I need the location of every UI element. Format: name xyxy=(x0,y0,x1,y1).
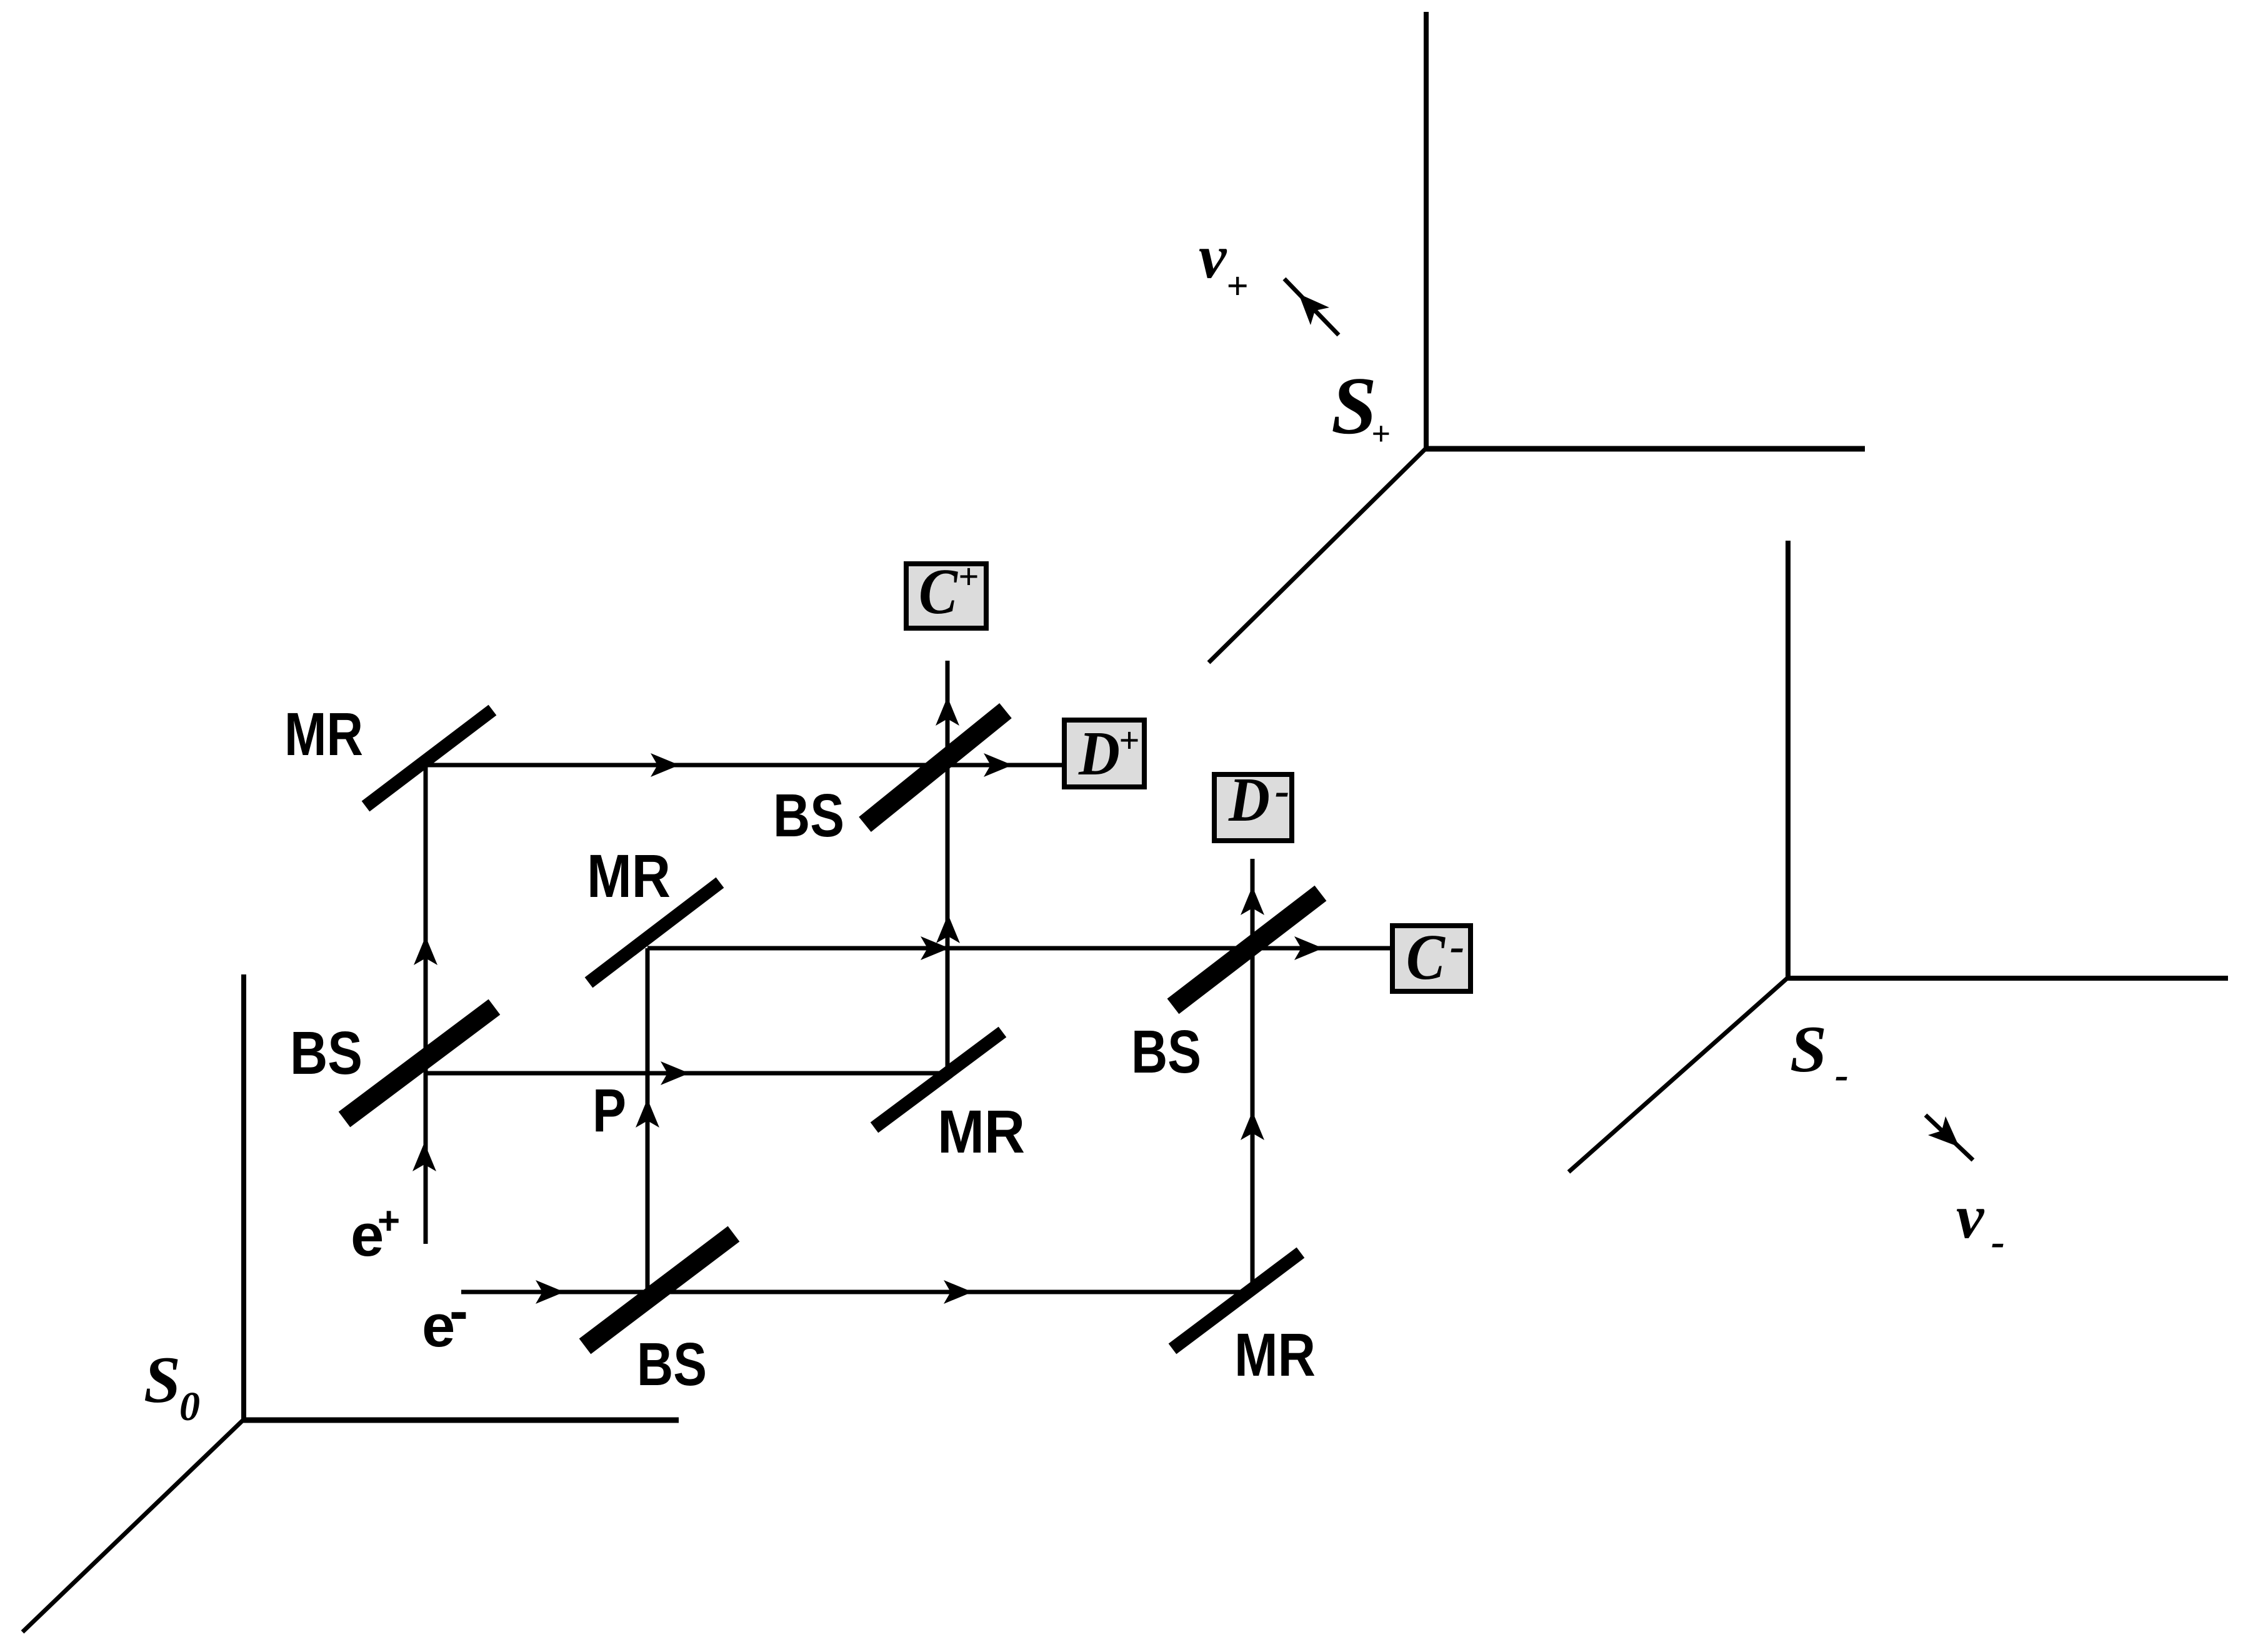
wire top horizontal beam to D+ xyxy=(426,763,1062,768)
svg-text:S: S xyxy=(144,1343,181,1416)
wire middle horizontal beam to C- xyxy=(647,946,1390,951)
frame S+ diagonal axis xyxy=(1209,448,1427,663)
detector box C- xyxy=(1392,926,1471,991)
svg-text:+: + xyxy=(377,1199,400,1243)
frame S0 diagonal axis xyxy=(22,1419,244,1632)
wire D- vertical beam xyxy=(1251,859,1255,1292)
svg-text:+: + xyxy=(1119,720,1139,761)
svg-text:BS: BS xyxy=(773,781,844,849)
svg-text:BS: BS xyxy=(637,1330,707,1398)
arrow v- head xyxy=(1928,1116,1959,1147)
frame S0 vertical axis xyxy=(241,974,246,1420)
svg-text:MR: MR xyxy=(937,1098,1025,1166)
wire e+ input vertical beam xyxy=(424,765,428,1244)
svg-text:+: + xyxy=(1371,415,1391,453)
svg-text:-: - xyxy=(449,1280,468,1343)
svg-text:C: C xyxy=(1406,921,1446,993)
arrow right on top beam xyxy=(651,753,679,777)
beam splitter BS top-middle xyxy=(865,711,1006,824)
detector box C+ xyxy=(906,564,986,628)
arrow right toward C- xyxy=(1294,936,1323,960)
svg-text:BS: BS xyxy=(1131,1018,1201,1086)
svg-text:S: S xyxy=(1331,361,1377,451)
svg-text:v: v xyxy=(1956,1182,1985,1251)
arrow up on e+ beam xyxy=(412,1143,436,1171)
wire C+ vertical beam xyxy=(946,661,950,1073)
svg-text:-: - xyxy=(1275,767,1289,815)
beam splitter BS left xyxy=(344,1007,494,1119)
beam splitter BS right xyxy=(1173,893,1321,1006)
svg-text:BS: BS xyxy=(290,1019,362,1087)
mirror MR middle xyxy=(589,883,720,983)
svg-text:D: D xyxy=(1078,718,1120,788)
frame S+ horizontal axis xyxy=(1424,446,1865,452)
svg-text:MR: MR xyxy=(587,842,671,910)
svg-text:D: D xyxy=(1228,764,1270,834)
arrow right on e- input xyxy=(536,1280,564,1304)
mirror MR top-left xyxy=(366,710,492,806)
svg-text:P: P xyxy=(592,1076,626,1144)
arrow right on middle beam at crossing xyxy=(921,936,949,960)
arrow up below BS right xyxy=(1241,1111,1264,1140)
wire lower horizontal beam BS to MR xyxy=(426,1071,947,1076)
svg-text:-: - xyxy=(1450,923,1464,971)
detector box D+ xyxy=(1064,720,1144,787)
svg-text:C: C xyxy=(919,556,958,628)
beam splitter BS bottom xyxy=(585,1234,734,1346)
svg-text:-: - xyxy=(1991,1219,2005,1264)
arrow up below BS top-middle xyxy=(936,914,960,943)
svg-text:0: 0 xyxy=(179,1384,200,1429)
arrow right on lower beam xyxy=(661,1061,689,1085)
svg-text:MR: MR xyxy=(284,700,363,768)
svg-text:MR: MR xyxy=(1234,1321,1316,1389)
mirror MR bottom-middle xyxy=(874,1032,1002,1128)
frame S- horizontal axis xyxy=(1786,976,2228,981)
arrow v- stem xyxy=(1926,1115,1973,1160)
frame S- diagonal axis xyxy=(1569,977,1789,1172)
arrow up at P xyxy=(636,1099,659,1128)
detector box D- xyxy=(1214,774,1292,841)
mirror MR bottom-right xyxy=(1172,1253,1301,1349)
arrow right toward D+ xyxy=(984,753,1012,777)
svg-text:+: + xyxy=(958,556,979,597)
svg-text:S: S xyxy=(1790,1013,1827,1086)
frame S0 horizontal axis xyxy=(241,1418,679,1423)
arrow up between BS and MR left xyxy=(414,936,437,965)
arrow up toward D- xyxy=(1241,886,1264,915)
svg-text:v: v xyxy=(1199,222,1227,291)
frame S+ vertical axis xyxy=(1424,12,1429,449)
wire e- input horizontal beam xyxy=(461,1290,1252,1294)
svg-text:-: - xyxy=(1835,1052,1849,1098)
svg-text:+: + xyxy=(1226,265,1248,308)
arrow v+ stem xyxy=(1284,279,1339,335)
wire P vertical beam xyxy=(646,948,650,1292)
arrow v+ head xyxy=(1299,294,1329,325)
arrow right on bottom beam xyxy=(944,1280,972,1304)
frame S- vertical axis xyxy=(1786,541,1791,978)
arrow up toward C+ xyxy=(936,697,959,726)
